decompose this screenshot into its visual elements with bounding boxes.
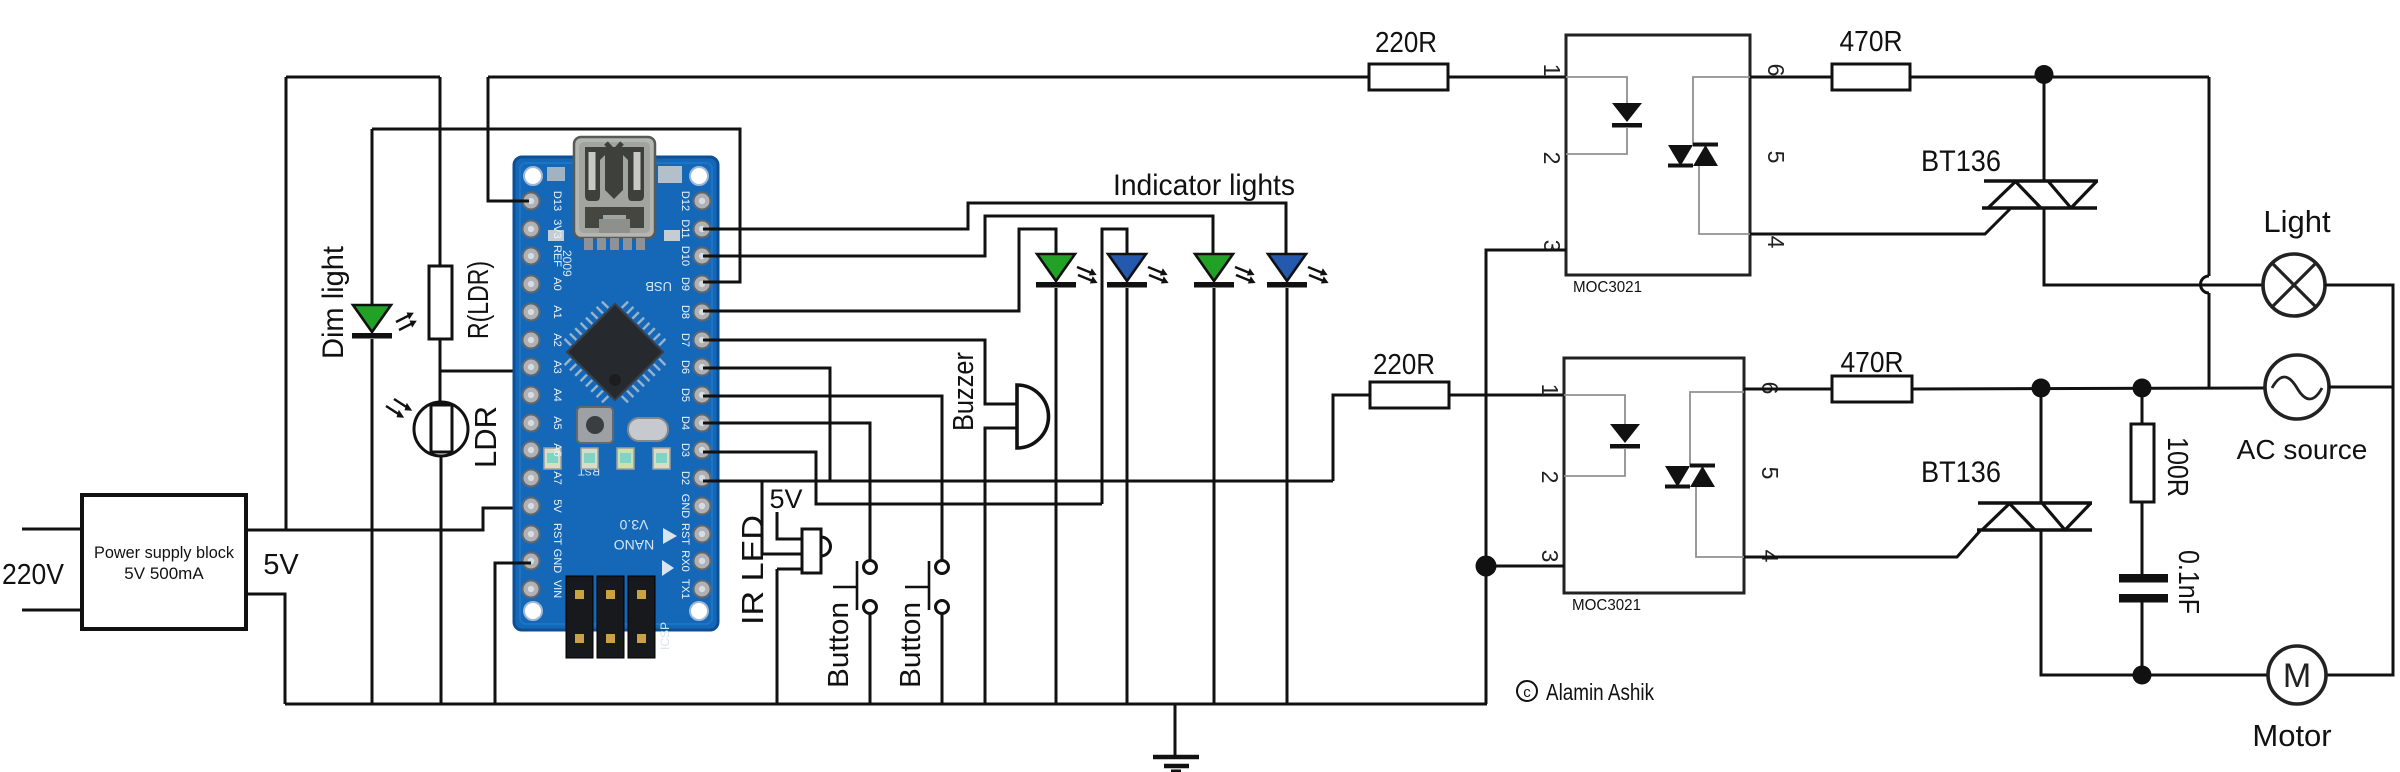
svg-text:Button: Button <box>895 602 927 688</box>
wire D13 rail to 220R (channel 1) <box>488 76 1369 79</box>
svg-text:Power supply block: Power supply block <box>94 543 234 562</box>
wire AC source to right rail <box>2329 386 2393 389</box>
wire right corner down to hop <box>2208 77 2211 276</box>
wire U2 pin 6 to 470R <box>1750 76 1832 79</box>
svg-text:LDR: LDR <box>468 406 503 468</box>
svg-text:AC source: AC source <box>2237 434 2368 465</box>
svg-text:IR LED: IR LED <box>735 515 770 625</box>
U2 internal LED <box>1566 77 1642 154</box>
wire D2 branch to IR receiver data pin <box>762 481 802 554</box>
wire D4 to button 1 <box>703 423 870 560</box>
svg-text:Motor: Motor <box>2252 718 2331 753</box>
resistor 470R (channel 2) <box>1832 376 1912 402</box>
svg-text:4: 4 <box>1763 236 1789 249</box>
wire D8 to indicator LED1 <box>703 229 1056 311</box>
wire 220V line input bottom <box>22 609 82 612</box>
wire GND output down to ground bus <box>246 594 285 704</box>
svg-text:5V: 5V <box>263 549 299 581</box>
svg-text:MOC3021: MOC3021 <box>1573 279 1642 296</box>
svg-text:D7: D7 <box>679 333 691 347</box>
wire junction down to ground bus <box>1485 576 1488 704</box>
resistor 470R (channel 1) <box>1832 64 1910 90</box>
svg-text:A7: A7 <box>551 471 563 484</box>
svg-text:A6: A6 <box>551 443 563 456</box>
power supply block PS1 <box>82 495 246 629</box>
wire D5 to button 2 <box>703 396 942 560</box>
wire U2 pin 4 to Q1 gate <box>1750 209 2010 234</box>
svg-text:RST: RST <box>551 523 563 545</box>
wire hop down to AC line <box>2208 293 2211 388</box>
U2 internal triac <box>1668 77 1750 234</box>
wire IR LED 5V stub <box>777 512 802 539</box>
svg-text:470R: 470R <box>1841 347 1904 379</box>
svg-text:A0: A0 <box>551 277 563 290</box>
wire node down to triac Q2 MT2 <box>2040 388 2043 503</box>
node junction (snubber top) <box>2133 379 2152 398</box>
svg-text:D11: D11 <box>679 219 691 238</box>
svg-text:5V 500mA: 5V 500mA <box>124 564 204 583</box>
LED dim light (green) <box>352 305 417 339</box>
svg-text:Dim light: Dim light <box>317 245 350 359</box>
svg-text:D3: D3 <box>679 443 691 457</box>
wire D9 to dim light anode <box>372 129 740 282</box>
svg-text:D6: D6 <box>679 360 691 374</box>
svg-text:5: 5 <box>1763 151 1789 164</box>
svg-text:A3: A3 <box>551 360 563 373</box>
wire LED4 cathode to ground bus <box>1286 288 1289 704</box>
svg-text:D5: D5 <box>679 388 691 402</box>
wire D11 to indicator LED4 <box>703 203 1286 254</box>
wire D6 down to channel-2 line <box>703 368 830 481</box>
wire Button 2 to ground bus <box>941 614 944 704</box>
wire LED3 cathode to ground bus <box>1213 288 1216 704</box>
wire 100R to capacitor <box>2141 502 2144 574</box>
wire 5V rail left vertical <box>285 77 288 530</box>
svg-text:Indicator lights: Indicator lights <box>1113 169 1295 202</box>
wire U2 pin 3 down to junction <box>1486 250 1566 556</box>
wire Q2 MT1 to motor line <box>2041 530 2268 675</box>
wire 470R to node and right corner <box>1910 76 2209 79</box>
capacitor C1 0.1nF <box>2119 574 2168 603</box>
wire LED1 cathode to ground bus <box>1055 288 1058 704</box>
resistor 220R (channel 2) <box>1370 382 1449 408</box>
LDR <box>414 402 468 456</box>
lamp Light <box>2263 254 2325 316</box>
copyright note <box>1517 679 1654 705</box>
wire LED2 cathode to ground bus <box>1126 288 1129 704</box>
wire 220V line input top <box>22 528 82 531</box>
svg-text:D13: D13 <box>551 191 563 211</box>
svg-text:D12: D12 <box>679 191 691 211</box>
triac Q2 BT136 (channel 2) <box>1977 503 2092 530</box>
motor M1 <box>2268 646 2326 704</box>
wire capacitor to motor line <box>2141 602 2144 675</box>
LED indicator 2 (blue) <box>1107 254 1169 288</box>
wire D10 to indicator LED3 <box>703 216 1213 256</box>
wire U3 pin 4 to Q2 gate <box>1744 531 1980 557</box>
wire Q1 MT1 to lamp (light line) <box>2044 208 2263 285</box>
svg-text:1: 1 <box>1539 64 1565 77</box>
svg-text:Button: Button <box>823 602 855 688</box>
wire snubber top lead <box>2141 388 2144 424</box>
node junction (snubber bottom) <box>2133 666 2152 685</box>
svg-text:D2: D2 <box>679 471 691 485</box>
resistor 100R (snubber) <box>2131 424 2154 502</box>
svg-text:D4: D4 <box>679 416 691 430</box>
wire up to indicator LED2 anode <box>1102 229 1127 504</box>
wire 220R to MOC3021#2 pin 1 <box>1449 394 1564 397</box>
LED indicator 4 (blue) <box>1267 254 1329 288</box>
optocoupler U2 MOC3021 (channel 1) <box>1566 35 1750 275</box>
wire U3 pin 6 to 470R <box>1744 388 1832 391</box>
svg-text:A2: A2 <box>551 333 563 346</box>
svg-text:5V: 5V <box>769 484 802 514</box>
svg-text:Light: Light <box>2263 204 2331 239</box>
AC source V1 <box>2265 355 2329 419</box>
svg-text:GND: GND <box>679 494 691 519</box>
svg-text:USB: USB <box>645 279 672 294</box>
node junction (channel 2 gate node) <box>2032 379 2051 398</box>
svg-text:2: 2 <box>1537 471 1563 484</box>
node junction (channel 1 gate node) <box>2035 65 2054 84</box>
svg-text:D8: D8 <box>679 305 691 319</box>
IR LED (receiver) <box>802 529 831 573</box>
wire D2/D6 horizontal (channel 2 feed) <box>703 480 1333 483</box>
svg-text:ICSP: ICSP <box>658 622 672 650</box>
LED indicator 3 (green) <box>1194 254 1256 288</box>
svg-text:RST: RST <box>679 523 691 545</box>
buzzer BZ1 <box>1017 385 1049 448</box>
svg-text:M: M <box>2283 657 2311 695</box>
svg-text:REF: REF <box>551 245 563 267</box>
svg-text:BT136: BT136 <box>1921 145 2001 178</box>
svg-text:470R: 470R <box>1840 26 1903 58</box>
svg-text:220V: 220V <box>2 559 65 591</box>
svg-text:R(LDR): R(LDR) <box>463 261 495 339</box>
wire 5V rail top horizontal <box>286 76 440 79</box>
wire junction to Arduino A3 <box>440 370 529 373</box>
svg-text:MOC3021: MOC3021 <box>1572 597 1641 614</box>
wire D7 to buzzer (+) <box>703 340 1017 404</box>
wire channel-2 feed up to 220R <box>1333 395 1370 481</box>
wire D3 toward indicator LED2 <box>703 452 1102 504</box>
wire 220R to MOC3021#1 pin 1 <box>1448 76 1566 79</box>
svg-text:BT136: BT136 <box>1921 456 2001 489</box>
wire dim light anode lead <box>371 129 374 305</box>
wire IR LED ground to bus <box>776 569 779 704</box>
LDR light arrows <box>386 399 412 418</box>
wire D13 up to top rail <box>488 77 529 201</box>
svg-text:VIN: VIN <box>551 580 563 598</box>
U3 internal triac <box>1665 392 1744 557</box>
wire ground bus <box>285 703 1487 706</box>
svg-text:A1: A1 <box>551 305 563 318</box>
svg-text:Buzzer: Buzzer <box>948 352 980 431</box>
wire Button 1 to ground bus <box>869 614 872 704</box>
pushbutton Button 2 <box>905 561 949 614</box>
wire right rail lamp to motor <box>2325 285 2393 675</box>
svg-text:0.1nF: 0.1nF <box>2172 550 2204 614</box>
wire junction to U3 pin 3 <box>1486 565 1564 568</box>
svg-text:5V: 5V <box>551 499 563 513</box>
wire Arduino GND pin to ground bus <box>495 563 531 704</box>
wire hop over light line <box>2201 276 2210 293</box>
resistor 220R (channel 1) <box>1369 64 1448 90</box>
svg-text:1: 1 <box>1537 384 1563 397</box>
LED indicator 1 (green) <box>1036 254 1098 288</box>
wire dim light cathode to ground bus <box>371 339 374 704</box>
svg-text:6: 6 <box>1763 64 1789 77</box>
wire IR LED ground stub <box>777 568 802 571</box>
svg-text:GND: GND <box>551 549 563 574</box>
wire 5V output to Arduino 5V pin <box>246 508 529 530</box>
svg-text:NANO: NANO <box>614 537 655 553</box>
svg-text:Alamin Ashik: Alamin Ashik <box>1546 679 1654 705</box>
svg-text:5: 5 <box>1757 467 1783 480</box>
wire node down to triac Q1 MT2 <box>2043 74 2046 181</box>
pushbutton Button 1 <box>833 561 877 614</box>
svg-text:A4: A4 <box>551 388 563 401</box>
triac Q1 BT136 (channel 1) <box>1982 181 2098 208</box>
U3 internal LED <box>1564 395 1640 476</box>
svg-text:TX1: TX1 <box>679 579 691 599</box>
svg-text:3: 3 <box>1537 550 1563 563</box>
node junction at U3 pin 3 <box>1476 556 1497 577</box>
svg-text:220R: 220R <box>1373 349 1435 381</box>
resistor R(LDR) <box>429 266 452 339</box>
svg-text:c: c <box>1523 684 1531 701</box>
svg-text:2: 2 <box>1539 152 1565 165</box>
svg-text:100R: 100R <box>2161 437 2193 497</box>
svg-text:V3.0: V3.0 <box>619 517 648 533</box>
Arduino Nano U1 (board) <box>514 137 718 658</box>
svg-text:D9: D9 <box>679 277 691 291</box>
svg-text:220R: 220R <box>1375 27 1437 59</box>
optocoupler U3 MOC3021 (channel 2) <box>1564 358 1744 593</box>
svg-text:RX0: RX0 <box>679 550 691 571</box>
wire LDR bottom to ground bus <box>440 456 443 704</box>
svg-text:A5: A5 <box>551 416 563 429</box>
wire buzzer (-) to ground bus <box>985 428 1017 704</box>
wire 470R to AC source line <box>1912 388 2265 389</box>
ground <box>1153 704 1199 772</box>
svg-text:3V3: 3V3 <box>551 219 563 239</box>
wire R(LDR) bottom to LDR top <box>439 339 442 402</box>
svg-text:D10: D10 <box>679 246 691 266</box>
wire R(LDR) top lead <box>439 77 442 266</box>
